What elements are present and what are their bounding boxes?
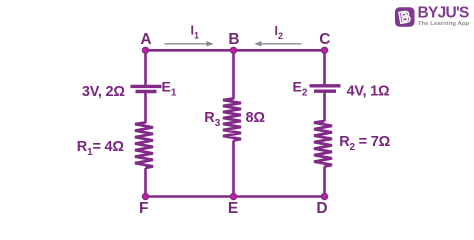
svg-text:A: A bbox=[140, 31, 151, 48]
resistor R2 bbox=[314, 121, 332, 167]
svg-text:B: B bbox=[228, 31, 239, 48]
resistor R3 bbox=[223, 99, 241, 141]
wire R2 to D bbox=[323, 167, 326, 197]
node B bbox=[231, 47, 237, 53]
wire A to battery E1 bbox=[144, 50, 147, 86]
battery E2 bbox=[310, 86, 341, 91]
current arrow I1 bbox=[165, 41, 214, 46]
wire battery E2 to resistor R2 bbox=[323, 91, 326, 121]
wire R1 to F bbox=[144, 168, 147, 197]
svg-text:R3: R3 bbox=[204, 110, 220, 129]
svg-text:4V, 1Ω: 4V, 1Ω bbox=[347, 83, 391, 99]
svg-text:R2 = 7Ω: R2 = 7Ω bbox=[339, 134, 390, 153]
node E bbox=[231, 194, 237, 200]
current arrow I2 bbox=[254, 41, 301, 46]
svg-text:8Ω: 8Ω bbox=[246, 110, 266, 126]
svg-text:R1= 4Ω: R1= 4Ω bbox=[77, 139, 125, 158]
BYJU'S logo icon box bbox=[395, 7, 415, 27]
svg-text:C: C bbox=[319, 31, 330, 48]
resistor R1 bbox=[135, 123, 153, 169]
svg-text:F: F bbox=[139, 200, 148, 217]
svg-text:D: D bbox=[316, 200, 327, 217]
svg-text:I1: I1 bbox=[191, 24, 200, 41]
node D bbox=[322, 194, 328, 200]
battery E1 bbox=[131, 86, 162, 91]
node C bbox=[322, 47, 328, 53]
wire top A-B-C bbox=[146, 49, 325, 52]
wire bottom F-E-D bbox=[146, 195, 325, 198]
svg-text:E1: E1 bbox=[162, 78, 177, 98]
svg-text:E: E bbox=[228, 200, 238, 217]
svg-text:E2: E2 bbox=[293, 78, 308, 98]
svg-text:The Learning App: The Learning App bbox=[418, 21, 470, 27]
wire battery E1 to resistor R1 bbox=[144, 92, 147, 124]
wire R3 to E bbox=[232, 141, 235, 197]
wire B to resistor R3 bbox=[232, 50, 235, 99]
svg-text:3V, 2Ω: 3V, 2Ω bbox=[82, 84, 126, 100]
wire C to battery E2 bbox=[323, 50, 326, 86]
svg-text:BYJU'S: BYJU'S bbox=[418, 4, 470, 21]
svg-text:I2: I2 bbox=[275, 24, 284, 41]
node A bbox=[143, 47, 149, 53]
node F bbox=[143, 194, 149, 200]
